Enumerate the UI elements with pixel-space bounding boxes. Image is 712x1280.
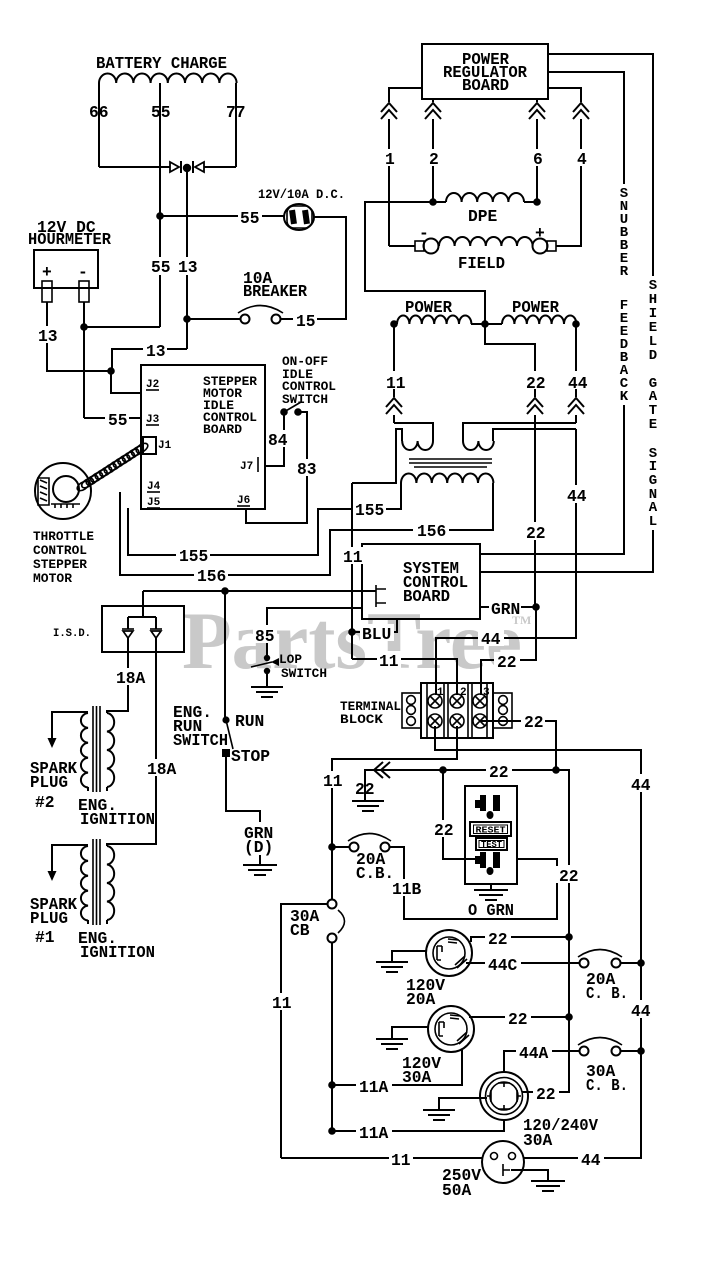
svg-text:84: 84: [268, 431, 288, 450]
svg-text:66: 66: [89, 103, 109, 122]
wire hourmeter plus 13: [47, 302, 111, 371]
junction dot 55 branch: [156, 212, 164, 220]
ground gfci: [474, 890, 508, 900]
wire 11 bus to breaker: [332, 846, 349, 848]
svg-text:LOP: LOP: [279, 652, 302, 667]
receptacle 120V 30A: [428, 1006, 474, 1052]
svg-text:#1: #1: [35, 928, 55, 947]
label 120/240V 30A: [523, 1116, 598, 1150]
svg-text:FIELD: FIELD: [458, 254, 505, 273]
wire 155: [128, 483, 401, 555]
svg-text:I.S.D.: I.S.D.: [53, 628, 91, 640]
watermark PartsTree: [182, 595, 531, 686]
diode D2: [195, 162, 204, 172]
label 22 horizontal: [486, 762, 512, 782]
svg-text:156: 156: [197, 567, 226, 586]
svg-text:+: +: [42, 263, 52, 282]
ground 120/240V: [423, 1110, 455, 1120]
terminal block right ear: [493, 693, 512, 728]
svg-text:22: 22: [489, 763, 509, 782]
wire 22 to gfci: [443, 770, 476, 859]
wire outlet to 15: [281, 217, 346, 319]
DPE winding: [446, 193, 524, 202]
svg-text:GRN: GRN: [491, 600, 520, 619]
wire power center link: [471, 323, 502, 325]
svg-text:IGNITION: IGNITION: [80, 943, 155, 962]
svg-text:18A: 18A: [147, 760, 177, 779]
pin J6: [237, 495, 250, 507]
wire 11 net vertical: [351, 483, 353, 659]
wire 18A left: [107, 638, 128, 713]
wire 44 riser lower: [436, 429, 576, 695]
junction dot power left: [390, 320, 398, 328]
label 13 (upper): [176, 257, 198, 277]
svg-text:55: 55: [108, 411, 128, 430]
svg-text:K: K: [620, 389, 629, 405]
svg-text:30A: 30A: [523, 1131, 553, 1150]
svg-text:50A: 50A: [442, 1181, 472, 1200]
svg-text:44C: 44C: [488, 956, 518, 975]
throttle control stepper motor: [35, 463, 91, 519]
ignition coil 1 secondary: [81, 846, 88, 924]
wire diode rail: [99, 166, 236, 168]
svg-text:CONTROL: CONTROL: [33, 543, 87, 558]
wire 11 bypass left: [281, 904, 328, 1158]
svg-text:11: 11: [323, 772, 343, 791]
terminal screws column2: [450, 694, 464, 728]
label 44C: [485, 955, 521, 975]
label 44 horizontal: [478, 629, 504, 649]
wire 55 center tap: [159, 83, 161, 327]
system control board box: [362, 544, 480, 619]
wire BLU: [352, 619, 397, 632]
wire 156: [120, 483, 493, 575]
svg-text:22: 22: [536, 1085, 556, 1104]
svg-text:13: 13: [38, 327, 58, 346]
svg-text:J7: J7: [240, 461, 253, 473]
label 22 to block: [494, 652, 520, 672]
label 18A right: [144, 759, 177, 779]
gfci reset button: [470, 822, 511, 836]
board title: [203, 374, 257, 437]
transformer core: [409, 459, 492, 467]
svg-text:#2: #2: [35, 793, 55, 812]
LOP switch label: [279, 652, 327, 681]
terminal screws column3: [473, 694, 487, 728]
label 13 (hourmeter): [36, 326, 58, 346]
label 155 left: [176, 547, 210, 566]
wire 11A bus: [331, 942, 333, 1131]
gfci outlet box: [465, 786, 517, 884]
wire GRN: [480, 606, 536, 608]
wire DPE left loop to power center: [365, 202, 485, 324]
gfci top slots: [475, 795, 500, 819]
power regulator board label: [443, 50, 527, 95]
junction dot 156 eng run: [221, 587, 229, 595]
junction dot 22 bus a: [565, 933, 573, 941]
label 22 (120V30A): [505, 1009, 531, 1029]
wire 22 from 120/240V: [522, 1017, 569, 1092]
label 44 bus lower: [628, 1000, 654, 1021]
label GRN (D): [244, 824, 273, 857]
ground 250V: [531, 1181, 565, 1191]
ignition coil 2 secondary: [81, 713, 88, 791]
wire 13 from diodes: [186, 167, 188, 349]
junction dot hourmeter minus: [80, 323, 88, 331]
svg-text:STOP: STOP: [231, 747, 270, 766]
wire eng run switch feed: [224, 591, 226, 720]
transformer primary right hat: [463, 423, 576, 450]
ignition coil 1 primary: [107, 846, 114, 924]
wire gfci out 11B loop: [390, 847, 557, 919]
wire 11 bus upper: [331, 768, 333, 900]
ISD diode left: [122, 629, 134, 638]
wire 11A upper: [332, 1050, 462, 1085]
breaker 30A right: [578, 1038, 622, 1056]
svg-text:E: E: [649, 417, 657, 433]
wire 44C: [466, 962, 580, 964]
wire LOP to ground: [266, 671, 268, 687]
junction dot power right: [572, 320, 580, 328]
svg-text:13: 13: [178, 258, 198, 277]
svg-text:RUN: RUN: [235, 712, 264, 731]
breaker 20A left: [348, 834, 391, 852]
svg-text:4: 4: [577, 150, 587, 169]
label 6: [531, 149, 544, 169]
snubber feedback vertical label: [620, 186, 629, 405]
eng run switch label: [173, 703, 228, 750]
diode D1: [170, 162, 179, 172]
wire 22 GRN to terminal block: [481, 607, 536, 695]
label 20A CB left: [356, 850, 394, 883]
svg-text:44: 44: [567, 487, 587, 506]
wire ground 120V20A: [392, 951, 426, 962]
wire ground 250V: [511, 1170, 548, 1181]
junction dot 13/breaker: [183, 315, 191, 323]
field winding: [439, 237, 533, 246]
svg-text:POWER: POWER: [405, 298, 452, 317]
junction dot 11A lower: [328, 1127, 336, 1135]
label 55 (battery): [149, 257, 171, 277]
wire pin6: [536, 99, 538, 202]
wire 55 to J3: [84, 417, 141, 419]
label 156 left: [194, 567, 228, 586]
wire 22 horizontal: [373, 770, 569, 865]
junction dot GRN: [532, 603, 540, 611]
svg-text:O GRN: O GRN: [468, 901, 514, 920]
label 11A upper: [356, 1077, 392, 1097]
svg-text:BLU: BLU: [362, 625, 391, 644]
label 11 riser: [384, 371, 406, 393]
label 20A CB right: [586, 970, 628, 1003]
ignition coil 1 core: [93, 839, 100, 925]
svg-text:2: 2: [429, 150, 439, 169]
svg-text:20A: 20A: [406, 990, 436, 1009]
svg-text:11: 11: [379, 652, 399, 671]
junction dot 22 gfci: [439, 766, 447, 774]
arrow riser 22: [526, 397, 544, 415]
svg-text:1: 1: [385, 150, 395, 169]
svg-text:11A: 11A: [359, 1124, 389, 1143]
label 85: [253, 625, 277, 646]
transformer primary left hat: [352, 423, 433, 483]
spark plug 2 wire: [52, 712, 88, 740]
label 120V 30A: [402, 1054, 441, 1087]
wire pin1: [389, 88, 422, 246]
svg-text:PLUG: PLUG: [30, 909, 68, 928]
wire pin4: [548, 88, 581, 246]
label 44A: [516, 1043, 552, 1063]
wire GRN D stub: [259, 855, 261, 865]
I.S.D. box: [102, 606, 184, 652]
label 15: [293, 311, 317, 331]
eng ignition 2 label: [78, 796, 155, 829]
ignition coil 2 core: [93, 706, 100, 792]
svg-text:BREAKER: BREAKER: [243, 282, 307, 301]
wire ground 120/240V: [439, 1098, 487, 1110]
svg-text:55: 55: [240, 209, 260, 228]
label 156 right: [413, 522, 449, 541]
power winding right: [502, 316, 576, 325]
arrow 22 left: [374, 762, 390, 778]
svg-text:BOARD: BOARD: [462, 76, 509, 95]
svg-text:SWITCH: SWITCH: [173, 731, 228, 750]
svg-text:155: 155: [355, 501, 384, 520]
svg-text:J1: J1: [158, 440, 172, 452]
label 44 bus upper: [628, 774, 654, 795]
wire 156 node to scb: [143, 590, 376, 592]
wire 55 to hourmeter minus: [84, 302, 160, 418]
wire 84 to J7: [265, 412, 284, 466]
snubber feedback wire top: [548, 72, 624, 184]
svg-text:22: 22: [434, 821, 454, 840]
junction dot 44 bus b: [637, 1047, 645, 1055]
wire pin2: [432, 99, 434, 202]
junction dot 44 bus a: [637, 959, 645, 967]
label BLU: [360, 624, 394, 644]
arrow pin1: [380, 102, 398, 119]
wire 11 bottom: [281, 1157, 482, 1159]
svg-text:22: 22: [524, 713, 544, 732]
receptacle 250V 50A: [482, 1141, 524, 1183]
svg-text:SWITCH: SWITCH: [281, 666, 327, 681]
system control board label: [403, 559, 468, 606]
LOP switch: [251, 655, 279, 674]
svg-text:11: 11: [386, 374, 406, 393]
snubber feedback wire bottom: [480, 405, 624, 554]
wire dot13 to breaker: [187, 318, 240, 320]
svg-text:POWER: POWER: [512, 298, 559, 317]
svg-text:D: D: [649, 348, 657, 364]
svg-text:IGNITION: IGNITION: [80, 810, 155, 829]
svg-text:C.B.: C.B.: [356, 864, 394, 883]
svg-text:11: 11: [391, 1151, 411, 1170]
label 44 riser lower: [565, 485, 589, 506]
label 155 right: [352, 501, 386, 520]
junction dot 13 node: [107, 367, 115, 375]
svg-text:MOTOR: MOTOR: [33, 571, 72, 586]
wire 11A lower: [332, 1120, 504, 1131]
terminal block left ear: [402, 693, 421, 728]
svg-text:PLUG: PLUG: [30, 773, 68, 792]
breaker 10A: [238, 306, 283, 324]
svg-text:BOARD: BOARD: [203, 422, 242, 437]
arrow pin6: [528, 102, 546, 119]
svg-text:STEPPER: STEPPER: [33, 557, 87, 572]
wire 77 tap: [235, 83, 237, 167]
wire 22 stub to ground: [365, 770, 378, 783]
label 13 (jog): [143, 341, 167, 361]
svg-text:RESET: RESET: [476, 825, 506, 836]
battery charge winding: [99, 74, 237, 84]
svg-text:L: L: [649, 514, 657, 530]
label 11 bottom: [389, 1150, 413, 1170]
wire 22 bus middle: [568, 882, 570, 1017]
gfci ground stub: [490, 884, 492, 890]
svg-text:156: 156: [417, 522, 446, 541]
wire 22 from 120V20A: [471, 937, 569, 942]
svg-text:44: 44: [631, 1002, 651, 1021]
wire 85: [267, 608, 362, 655]
pin J5: [147, 497, 161, 509]
label 22 col3: [521, 712, 545, 732]
wire 18A right: [107, 638, 156, 846]
label 30A CB: [290, 907, 320, 940]
wire 13 to J2: [111, 371, 141, 393]
svg-text:13: 13: [146, 342, 166, 361]
label 44 riser upper: [566, 371, 590, 393]
ground 120V20A: [376, 962, 408, 972]
label 55 (center tap): [148, 101, 172, 122]
receptacle 12V DC: [284, 204, 314, 230]
wire col1 bottom to 44 bus: [435, 726, 641, 775]
svg-text:155: 155: [179, 547, 208, 566]
wire col3 bottom 22: [480, 721, 556, 770]
svg-text:(D): (D): [244, 838, 273, 857]
wire 22 from 120V30A: [469, 1016, 569, 1018]
wire field left: [389, 245, 415, 247]
on-off idle control switch label: [282, 354, 336, 407]
label 44 bottom: [578, 1150, 604, 1170]
label 120V 20A: [406, 976, 445, 1009]
label 4: [575, 149, 588, 169]
svg-text:44: 44: [581, 1151, 601, 1170]
transformer secondary: [401, 474, 493, 484]
svg-text:R: R: [620, 264, 629, 280]
label 18A left: [114, 668, 146, 688]
label GRN: [489, 599, 521, 619]
svg-text:44: 44: [481, 630, 501, 649]
wire breaker to 44 bus: [620, 962, 641, 964]
svg-text:11: 11: [343, 548, 363, 567]
label 83: [295, 459, 319, 479]
svg-text:77: 77: [226, 103, 246, 122]
field brush left: [415, 239, 439, 254]
label 1: [383, 149, 396, 169]
svg-text:44: 44: [568, 374, 588, 393]
breaker 30A vertical: [328, 900, 345, 943]
svg-text:22: 22: [488, 930, 508, 949]
junction dot 22 bus b: [565, 1013, 573, 1021]
svg-text:SWITCH: SWITCH: [282, 392, 328, 407]
throttle motor label: [33, 529, 94, 586]
ignition coil 2 primary: [107, 713, 114, 791]
wire 66 tap: [98, 83, 100, 167]
label 55 (to outlet): [238, 208, 262, 228]
junction dot 11 breaker: [328, 843, 336, 851]
svg-text:22: 22: [508, 1010, 528, 1029]
wire riser 44: [575, 324, 577, 423]
svg-text:-: -: [78, 263, 88, 282]
terminal screws column1: [428, 694, 442, 728]
gfci test button: [476, 838, 507, 850]
pin J4: [147, 481, 161, 493]
label 11A lower: [356, 1123, 392, 1143]
ground 120V30A: [376, 1039, 408, 1049]
label 11 bus upper: [321, 771, 345, 791]
label 22 gfci: [432, 820, 456, 840]
svg-text:22: 22: [526, 524, 546, 543]
junction dot diode center: [183, 164, 191, 172]
label 2: [427, 149, 440, 169]
svg-text:C. B.: C. B.: [586, 984, 628, 1003]
ISD diode right: [150, 629, 162, 638]
arrow riser 44: [567, 397, 585, 415]
svg-text:BATTERY CHARGE: BATTERY CHARGE: [96, 54, 227, 73]
terminal block body: [421, 683, 493, 738]
field brush right: [533, 239, 557, 254]
svg-text:85: 85: [255, 627, 275, 646]
svg-text:BLOCK: BLOCK: [340, 712, 383, 727]
wire riser 11: [393, 324, 395, 423]
label 30A CB right: [586, 1062, 628, 1095]
scb left pin header: [376, 585, 386, 607]
label 55 (J3): [105, 410, 129, 430]
label 22 riser upper: [524, 371, 548, 393]
arrow pin2: [424, 102, 442, 119]
wire 55 to 12V outlet: [160, 215, 285, 217]
terminal block label: [340, 699, 401, 727]
ground 22 stub: [352, 782, 384, 811]
wire 44A: [504, 1051, 580, 1073]
junction dot DPE left: [429, 198, 437, 206]
wire stop to ground: [226, 755, 260, 822]
junction dot power center: [481, 320, 489, 328]
label 22 (120/240V): [533, 1084, 559, 1104]
label 22 bus: [556, 866, 582, 886]
receptacle 120V 20A: [426, 930, 472, 976]
label 11 net: [341, 547, 363, 567]
spark plug 1 label: [30, 895, 77, 947]
svg-text:C. B.: C. B.: [586, 1076, 628, 1095]
eng run switch contacts: [222, 716, 233, 757]
svg-text:THROTTLE: THROTTLE: [33, 529, 94, 544]
svg-text:HOURMETER: HOURMETER: [28, 230, 111, 249]
wire breaker to 44 bus b: [620, 1050, 641, 1052]
ground LOP: [251, 687, 283, 697]
svg-text:18A: 18A: [116, 669, 146, 688]
svg-text:55: 55: [151, 258, 171, 277]
label 84: [266, 430, 290, 450]
power winding left: [394, 316, 471, 324]
svg-text:11: 11: [272, 994, 292, 1013]
svg-text:BOARD: BOARD: [403, 587, 450, 606]
wire col2 bottom to 11 bus: [332, 726, 457, 768]
label 11 bypass: [270, 993, 294, 1013]
svg-text:11A: 11A: [359, 1078, 389, 1097]
label 11B: [390, 879, 424, 899]
svg-text:6: 6: [533, 150, 543, 169]
